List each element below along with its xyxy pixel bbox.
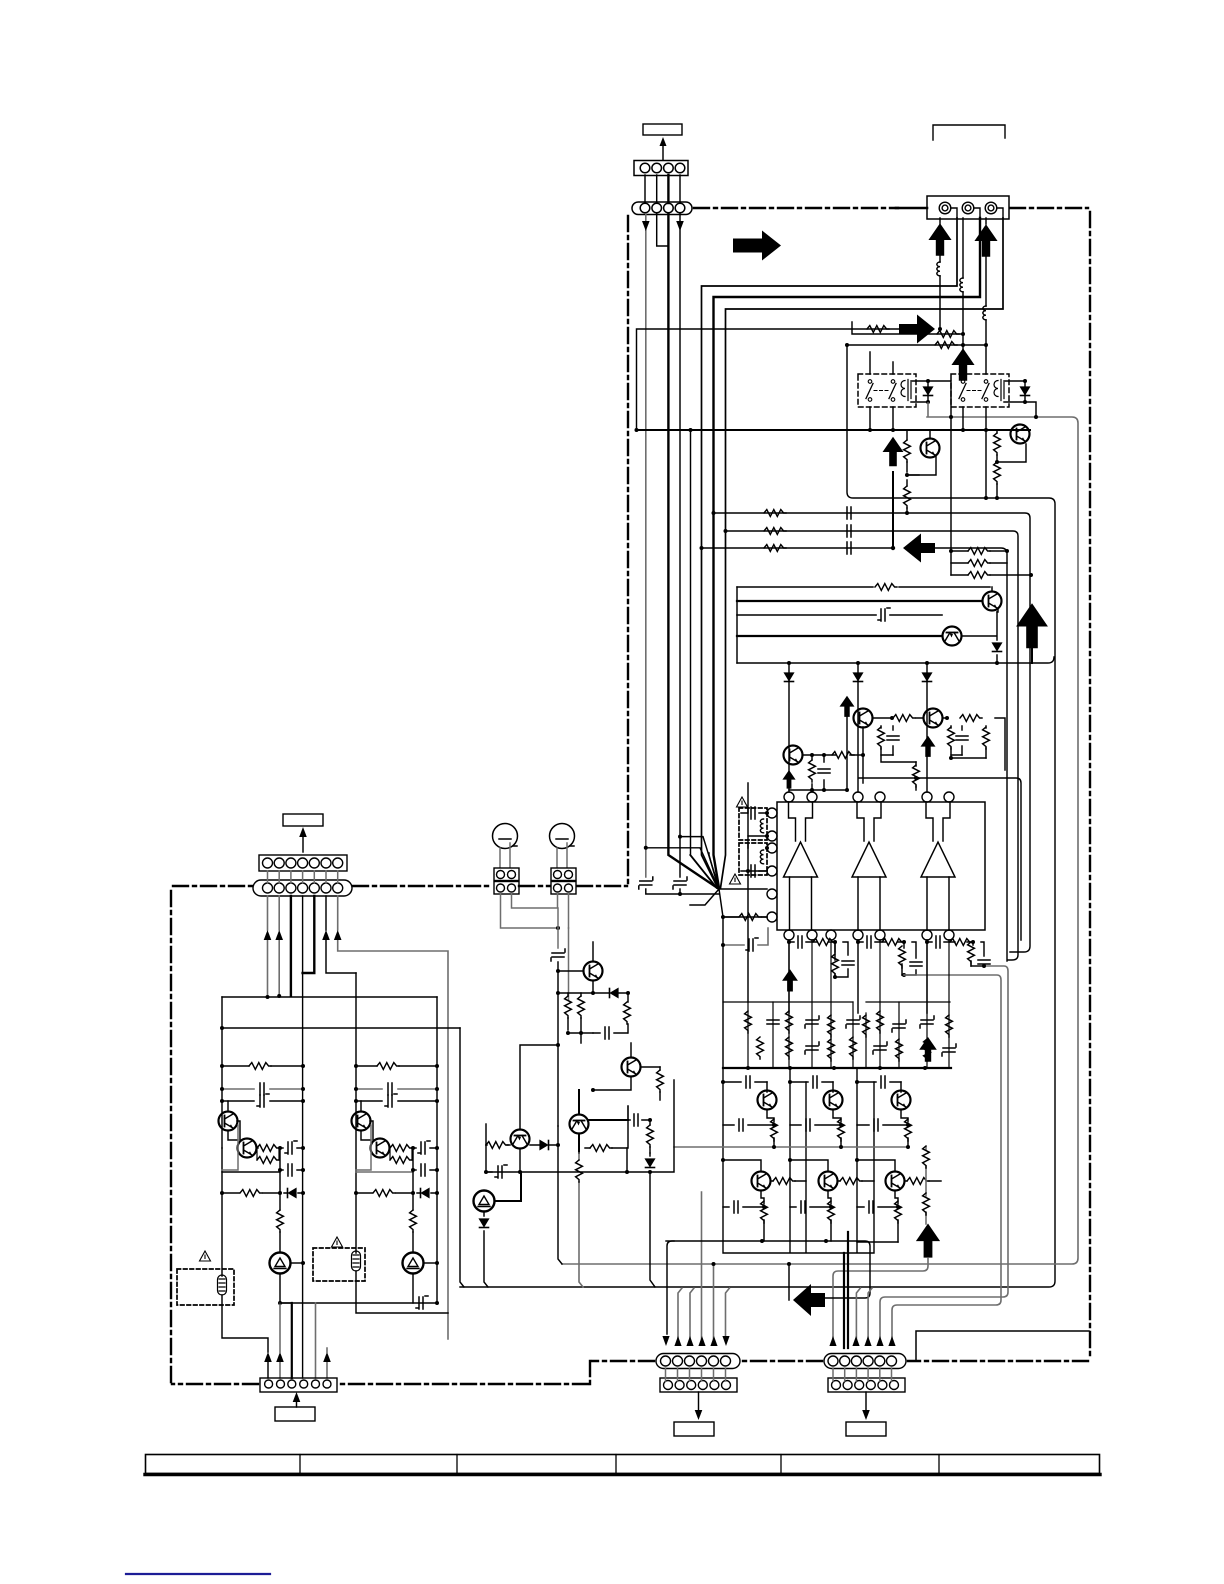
diode D hp (610, 989, 619, 998)
wire SP2 down (962, 218, 964, 352)
label box left top (283, 814, 323, 826)
capacitor C in1 (639, 877, 653, 889)
wire q row1 feeds (723, 1081, 901, 1083)
diode D b1 (788, 663, 790, 792)
resistor R c1c (257, 1157, 279, 1164)
wire q row2 (723, 1160, 895, 1171)
transistor Q pd3 (784, 746, 803, 765)
capacitor C q3 (881, 1076, 885, 1088)
wire 7p pins join (268, 871, 338, 883)
arrow up main supply right (1016, 603, 1048, 648)
diode D b2 (857, 663, 859, 792)
wire relay drive B (852, 322, 963, 334)
wire pin4 down with arrow (679, 214, 681, 877)
resistor R b13 (786, 1037, 793, 1059)
wire row2 bottom ties (857, 1241, 898, 1243)
wire bottom-right solid step border (916, 1331, 1089, 1360)
transistor Q pd2 (924, 709, 943, 728)
resistor R s1 (764, 510, 786, 517)
IC U1 body (777, 802, 985, 930)
IC top pins (784, 792, 954, 802)
resistor R b5 (828, 1015, 835, 1037)
capacitor C c1b (222, 1100, 303, 1102)
wire f2 pins (748, 843, 767, 871)
table revision strip (145, 1455, 1100, 1475)
wire q c1 links (222, 1101, 280, 1172)
wire diode top to bus (928, 381, 951, 417)
capacitor C e4 (723, 1206, 764, 1208)
resistor R b3 (786, 1011, 793, 1033)
resistor R msr (867, 326, 889, 333)
arrow up protection Q feed (883, 437, 904, 466)
resistor R o2v (899, 946, 906, 968)
label box top (643, 124, 682, 135)
wire arrow down to junction (892, 472, 894, 548)
wire hp2 (593, 1043, 660, 1090)
wire out ch1 (789, 940, 848, 1013)
wire driver box top (737, 586, 990, 588)
resistor R b16 (850, 1037, 857, 1059)
diode D c2 (417, 1192, 437, 1194)
resistor R e6 (895, 1201, 902, 1223)
resistor R o1v (834, 942, 836, 952)
connector wire-side 4-pin oval (632, 202, 692, 215)
wire in left stubs (646, 837, 719, 888)
resistor R o3v (968, 942, 975, 964)
wire pin1 down with arrow (645, 214, 647, 877)
IC bottom pins (784, 930, 954, 940)
resistor R d1 (875, 584, 897, 591)
wire out ch3 (927, 940, 984, 1013)
connector J1 block (494, 868, 519, 894)
resistor R q2 (996, 430, 998, 498)
capacitor C o3v (978, 960, 990, 964)
transistor Q d2 (943, 627, 962, 646)
inductor L f2 (760, 850, 763, 864)
resistor R b15 (828, 1039, 835, 1061)
transistor Q c1b (238, 1139, 257, 1158)
resistor R rdc (935, 342, 957, 349)
capacitor C icin (723, 928, 768, 945)
capacitor C c1a (222, 1088, 303, 1090)
arrow left at bottom (793, 1284, 825, 1316)
transistor Q c1a (219, 1112, 238, 1131)
wire hp feed (558, 908, 569, 1000)
indicator LED c1 (270, 1253, 291, 1274)
wire ic vin vertical (747, 783, 749, 1002)
wire driver bold 2 (737, 635, 942, 637)
arrow up to SP1 (928, 223, 951, 256)
wire signal line 1 (714, 513, 1031, 952)
capacitor C hp5 (486, 1171, 492, 1173)
inductor L1 (937, 262, 940, 276)
transistor Q c2b (371, 1139, 390, 1158)
wire relay gray bus to right (562, 403, 1078, 1264)
inductor L f1 (760, 819, 763, 833)
transistor Q hp2 (622, 1058, 641, 1077)
diode D d1 (993, 643, 1002, 652)
arrow up bank (919, 1037, 937, 1062)
resistor R hp4 (659, 1067, 661, 1100)
arrowheads into right oval (829, 1336, 836, 1346)
wire speaker return 3 (721, 218, 1004, 888)
resistor trio right (951, 551, 1031, 575)
transistor Q o1 (758, 1091, 777, 1110)
wire Qd2 to right (962, 612, 997, 663)
jack J2 (550, 824, 575, 849)
capacitor C pd2b (961, 726, 963, 755)
wire pins to oval (645, 175, 680, 203)
connector right pcb (828, 1378, 905, 1392)
wire diode2 to coil (1004, 381, 1025, 402)
link underline (126, 1573, 270, 1575)
fuse box c2 (313, 1248, 365, 1281)
transistor Q hp1 (584, 962, 603, 981)
resistor R hp3 (624, 1002, 631, 1024)
wire pin5 line down (315, 1303, 317, 1378)
wire pd bias row (859, 755, 1021, 940)
fuse box c1 (177, 1269, 234, 1305)
wire q c2 links (361, 1101, 373, 1140)
connector left-block bottom (260, 1378, 337, 1392)
wire jack j1 down (501, 894, 569, 928)
wire speaker return 2 (714, 218, 981, 888)
resistor R b1 (745, 1011, 752, 1033)
arrow up relay supply (951, 348, 974, 381)
wire bold pair down (844, 1232, 848, 1348)
capacitor C c1c (280, 1147, 303, 1149)
capacitor C c2e on bottom line (416, 1296, 428, 1309)
wire hp4 (579, 1090, 628, 1153)
transistor Q o5 (819, 1172, 838, 1191)
connector CN top 4-pin (634, 161, 688, 176)
resistor R c1a (222, 1065, 303, 1067)
wire bias rail y663 (737, 657, 1054, 663)
capacitor C o1v (842, 961, 854, 965)
node (961, 332, 965, 336)
arrowheads into left oval (662, 1336, 669, 1346)
wire q hp3 area (485, 1124, 487, 1145)
wire lb pin2' arrow (279, 1303, 281, 1378)
resistor R q5r (838, 1180, 874, 1182)
resistor R hp7 (649, 1120, 651, 1153)
fuse F c2 (352, 1251, 361, 1271)
wire lb pin7 down jog right (338, 896, 448, 1339)
capacitor C hp2 (593, 1032, 627, 1034)
inductor L3 (983, 306, 986, 320)
transistor Q prot1 (921, 439, 940, 458)
resistor R hp6 (585, 1120, 628, 1148)
wire bottom border jog (589, 1361, 591, 1384)
wire q row1 emitters (767, 1082, 908, 1147)
connector left oval 7p (253, 880, 352, 896)
wire arrow to label right (865, 1392, 867, 1412)
wire pin3 bold down to fan (668, 214, 717, 888)
wire solid border near terminal block (896, 207, 927, 210)
wire fuse c1 down (222, 1295, 268, 1352)
arrow up pd3 (small) (782, 770, 795, 789)
wire lb bold to connector (291, 1303, 293, 1378)
resistor R hp1 (567, 993, 569, 1030)
wire pin2 jog (657, 214, 669, 246)
arrow up to SP3 (974, 224, 997, 257)
capacitor C s1 (847, 507, 851, 519)
diode D b3 (926, 663, 928, 792)
capacitor C b6 (846, 1016, 860, 1028)
capacitor C e6 (857, 1206, 898, 1208)
wire input fan (690, 855, 767, 1068)
capacitor C e2 (790, 1124, 841, 1126)
capacitor C o3 (936, 936, 940, 948)
wire left edge of driver box (736, 587, 738, 663)
terminal SP1 (939, 202, 957, 218)
resistor R b19 (924, 1039, 931, 1061)
indicator LED c2 (403, 1253, 424, 1274)
wire oval to pcb left (666, 1368, 726, 1381)
terminal SP2 (962, 202, 980, 218)
wire lb rails vertical (222, 973, 437, 1303)
capacitor C e5 (790, 1206, 831, 1208)
capacitor C b14 (805, 1042, 819, 1054)
resistor R b7 (863, 1015, 870, 1037)
transistor Q prot2 (1011, 425, 1030, 444)
wire fan stubs up (691, 430, 719, 888)
wire c1 mid vertical (279, 1148, 281, 1210)
wire bottom border right section (908, 1360, 1088, 1362)
capacitor C b20 (942, 1044, 956, 1056)
transistor Q hp4 (570, 1115, 589, 1134)
resistor R q1b (906, 430, 908, 513)
wire pd gnd row (789, 789, 847, 791)
transistor Q pd1 (854, 709, 873, 728)
resistor R c1e (277, 1210, 284, 1232)
wire signal line 2 (726, 531, 1019, 960)
label box bottom mid (674, 1422, 714, 1436)
capacitor C b17 (873, 1042, 887, 1054)
resistor R pd1b (880, 726, 882, 755)
transistor Q c2a (352, 1112, 371, 1131)
resistor R c2e (410, 1210, 417, 1232)
arrow big right (signal direction) (733, 231, 781, 261)
label box left bottom (275, 1407, 315, 1421)
capacitor C q2 (813, 1076, 817, 1088)
wire driver bold 1 (737, 600, 982, 602)
wire oval to pcb right (833, 1368, 892, 1381)
capacitor C c2a (356, 1088, 437, 1090)
wire LED c1 down (280, 1274, 437, 1303)
resistor R e4 (761, 1201, 768, 1223)
wire bank rails (748, 942, 949, 1068)
resistor R pd3a (811, 755, 813, 790)
resistor R c1b (257, 1147, 258, 1149)
resistor R e5 (828, 1201, 835, 1223)
wire right conn feeds (856, 1288, 872, 1340)
capacitor C e1 (723, 1124, 774, 1126)
wire pd join (881, 755, 916, 762)
op-amp A1 (784, 802, 818, 930)
capacitor C o1 (798, 936, 802, 948)
wire fuse c2 down (356, 1271, 448, 1313)
relay RY1 (858, 374, 916, 407)
node (845, 343, 849, 347)
arrow up pd2 (921, 736, 936, 757)
wire channel frames (723, 1068, 874, 1253)
wire out ch2 (858, 940, 916, 1013)
capacitor C c1d (280, 1169, 303, 1171)
wire mid block verticals (460, 1028, 486, 1287)
resistor R c2a (356, 1065, 437, 1067)
transistor Q hp3 (511, 1130, 530, 1149)
connector left pcb 7p (259, 855, 347, 871)
transistor Q d1 (983, 592, 1002, 611)
capacitor C s3 (847, 542, 851, 554)
resistor R q6r (905, 1180, 941, 1182)
connector left pcb (660, 1378, 737, 1392)
resistor R b18 (896, 1039, 903, 1061)
resistor R b11 (946, 1015, 953, 1037)
warning triangle c2 (332, 1237, 343, 1247)
node (938, 327, 942, 331)
capacitor C hp4 (628, 1106, 650, 1120)
resistor R b12 (757, 1037, 764, 1059)
capacitor C b9 (892, 1020, 906, 1032)
op-amp A3 (921, 802, 955, 930)
capacitor C o2 (867, 936, 871, 948)
wire arrow to label (662, 144, 664, 160)
resistor R c2d (356, 1192, 413, 1194)
wire SP1 down (939, 218, 941, 329)
resistor R e1 (771, 1119, 778, 1141)
arrow up out1 (782, 969, 798, 991)
wire diode to coil (911, 381, 928, 402)
wire signal line 3 (702, 548, 1008, 961)
capacitor C in2 (673, 877, 687, 889)
resistor R icin (723, 916, 767, 918)
wire hp mid (520, 962, 593, 1129)
resistor R pdm (915, 762, 917, 790)
wire bank top tie (723, 1001, 950, 1003)
wire f1 pins (748, 808, 767, 836)
capacitor C f2 (741, 870, 767, 872)
wire LED c2 down (412, 1274, 414, 1303)
arrow up pd1 (840, 696, 855, 717)
resistor R q4r (771, 1180, 806, 1182)
arrow up emitter bus (916, 1224, 940, 1258)
wire top board left border (627, 216, 629, 884)
capacitor C b4 (805, 1016, 819, 1028)
capacitor C c2b (356, 1100, 437, 1102)
transistor Q o4 (752, 1172, 771, 1191)
capacitor C q1 (746, 1076, 750, 1088)
capacitor C o2v (910, 962, 922, 966)
wire pd3 base net (803, 727, 863, 783)
filter box F2 (739, 843, 767, 875)
capacitor C pd3a (823, 755, 825, 790)
wire bottom bus returns (678, 1192, 730, 1340)
warning triangle c1 (200, 1251, 211, 1261)
resistor R e3 (905, 1119, 912, 1141)
wire relay contacts down (870, 352, 986, 551)
inductor L2 (960, 278, 963, 292)
IC left pins (767, 808, 777, 922)
capacitor C c2d (413, 1169, 437, 1171)
connector right oval (824, 1354, 906, 1369)
transistor Q o2 (824, 1091, 843, 1110)
resistor R c2b (390, 1145, 412, 1152)
wire q row2 emitters (761, 1191, 898, 1242)
wire driver cap line (737, 614, 942, 616)
transistor Q o6 (886, 1172, 905, 1191)
resistor R hp2 (580, 993, 582, 1043)
resistor R sense (925, 1147, 927, 1224)
wire SP3 down (985, 218, 987, 374)
resistor R s3 (764, 545, 786, 552)
op-amp A2 (852, 802, 886, 930)
jack J1 (493, 824, 518, 849)
resistor R s2 (764, 528, 786, 535)
wire jack leads (500, 843, 567, 867)
capacitor C e3 (857, 1124, 908, 1126)
diode D ry1 (927, 381, 929, 402)
wire gray return lower left (326, 1348, 328, 1378)
wire lb second rail (222, 1027, 460, 1029)
wire top board top border (694, 207, 898, 209)
filter box F1 (739, 808, 767, 840)
wire arrow to label left (698, 1392, 700, 1412)
arrow left mute return (903, 534, 935, 563)
diode D hp2 (530, 1144, 558, 1146)
diode D c1 (284, 1192, 303, 1194)
capacitor C f1 (741, 812, 767, 814)
fuse F c1 (218, 1275, 227, 1295)
warning triangle ic top (737, 797, 748, 807)
arrow right mute (899, 315, 935, 344)
wire lb pin5 bold jog (303, 896, 315, 973)
indicator LED mid (474, 1191, 495, 1212)
wire resistor feed line (637, 329, 900, 430)
terminal SP3 (985, 202, 1003, 218)
wire lb pin2 down (278, 896, 280, 996)
wire relay drive C (847, 344, 985, 346)
wire mid rail gray (674, 1146, 908, 1148)
wire left drop of drive line (460, 345, 1055, 1287)
resistor R hp5 (486, 1144, 510, 1146)
capacitor C b2 (767, 1020, 779, 1024)
resistor R e2 (838, 1119, 845, 1141)
wire gnd row hp (486, 1080, 674, 1172)
diode D ry2 (1024, 381, 1026, 402)
wire c2 mid vertical (412, 1148, 414, 1210)
diode D mid (484, 1212, 488, 1287)
resistor R pd2c (985, 726, 987, 758)
resistor R pd2b (950, 726, 952, 755)
wire lb pin3 bold down (290, 896, 292, 996)
capacitor C s2 (847, 525, 851, 537)
resistor R pd12 (873, 717, 923, 719)
capacitor C c2c (413, 1147, 437, 1149)
capacitor C pd1b (892, 726, 894, 755)
wire speaker return 1 (bold nested corner) (702, 218, 958, 888)
wire diode2 to right bus (1025, 402, 1036, 417)
resistor R pd2r (943, 718, 1005, 770)
wire left board left border (170, 888, 172, 1382)
wire lb top rail (222, 996, 437, 998)
wire top board top border right of terminals (1010, 207, 1088, 209)
connector J2 block (551, 868, 576, 894)
wire left board top border (173, 885, 252, 887)
resistor R o3 (950, 939, 972, 946)
wire arrow to label lb (296, 1398, 298, 1407)
